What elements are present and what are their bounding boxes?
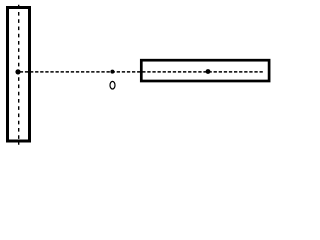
wire: vertical dashed centerline of rod A: [18, 5, 20, 145]
wire: horizontal dashed axis: [18, 71, 263, 73]
label O: [110, 81, 115, 89]
node: center of rod A (filled dot): [15, 69, 20, 74]
node: center of rod B (filled dot): [206, 69, 211, 74]
rod A (vertical rectangle): [8, 8, 30, 142]
rod B (horizontal rectangle): [141, 60, 269, 81]
node O: origin dot: [110, 70, 114, 74]
